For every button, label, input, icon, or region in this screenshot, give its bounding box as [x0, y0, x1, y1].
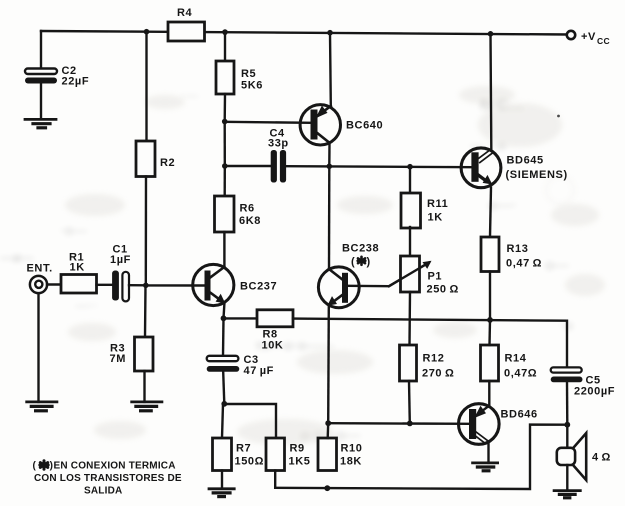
- svg-text:1K: 1K: [70, 262, 85, 274]
- wire R1 to C1: [97, 284, 113, 286]
- svg-text:1K: 1K: [428, 212, 443, 224]
- svg-text:P1: P1: [428, 271, 443, 283]
- svg-text:6K8: 6K8: [239, 215, 261, 227]
- wire BD645 emitter to R13: [490, 188, 491, 238]
- wire bottom feedback rail: [275, 425, 567, 489]
- svg-text:R7: R7: [236, 443, 251, 455]
- resistor R4: [168, 7, 205, 41]
- wire BC238 emitter down to lower node: [327, 306, 330, 424]
- wire bias rail to BD646 base: [328, 422, 469, 425]
- wire R11 to P1: [409, 227, 411, 256]
- svg-text:22µF: 22µF: [62, 76, 90, 88]
- wire top supply rail: [41, 31, 567, 35]
- wire C1 to input node: [129, 284, 146, 286]
- svg-text:33p: 33p: [268, 138, 289, 150]
- svg-text:18K: 18K: [340, 456, 362, 468]
- wire C3 bottom to node: [223, 372, 224, 404]
- capacitor C2: [25, 65, 89, 88]
- scan ghost artifacts (background): [0, 87, 574, 444]
- wire BC238 base to P1 wiper: [348, 263, 429, 287]
- transistor Q BC640: [300, 105, 383, 145]
- wire ENT to R1: [47, 283, 61, 285]
- wire R3 to ground: [143, 371, 145, 402]
- resistor R11: [401, 193, 448, 228]
- resistor R8: [257, 310, 293, 352]
- transistor Q BC237: [193, 264, 278, 305]
- svg-text:): ): [367, 256, 371, 268]
- svg-text:(: (: [33, 461, 37, 472]
- node BC237 emitter / R8 / C3: [221, 315, 227, 321]
- ground (ENT): [27, 402, 57, 411]
- ground (speaker): [554, 491, 580, 498]
- transistor Q BC238: [318, 243, 379, 308]
- wire R9 bottom to rail: [274, 471, 276, 488]
- wire R6 to BC237 collector: [223, 232, 225, 268]
- resistor R13: [481, 237, 542, 272]
- resistor R12: [400, 345, 455, 381]
- svg-text:BC238: BC238: [342, 243, 379, 255]
- svg-text:10K: 10K: [262, 340, 284, 352]
- wire R14 bottom to BD646 emitter: [488, 381, 490, 405]
- svg-text:R12: R12: [423, 353, 445, 365]
- capacitor C4: [268, 128, 289, 183]
- wire C3 top lead: [222, 318, 225, 355]
- node junction rail/R5: [222, 29, 228, 35]
- svg-text:BC237: BC237: [240, 281, 277, 293]
- svg-text:EN CONEXION TERMICA: EN CONEXION TERMICA: [54, 461, 176, 472]
- wire R5 branch from rail: [224, 32, 226, 61]
- resistor R2: [136, 141, 175, 177]
- wire BC238 collector up to node: [328, 166, 331, 268]
- node BC238 emitter / R10 / bias rail: [325, 420, 331, 426]
- potentiometer P1: [389, 256, 459, 296]
- node input / R2 / R3 / BC237 base: [143, 283, 149, 289]
- svg-text:1K5: 1K5: [289, 456, 311, 468]
- wire output rail to C5 corner: [293, 319, 567, 368]
- svg-text:+V: +V: [581, 31, 596, 43]
- svg-text:—··: —··: [75, 297, 98, 313]
- wire ENT to ground: [37, 293, 39, 402]
- wire BD646 collector to ground: [487, 443, 489, 463]
- wire speaker to ground: [566, 465, 568, 491]
- svg-text:0,47Ω: 0,47Ω: [504, 368, 537, 380]
- wire C4 right to BD645 base: [286, 166, 471, 167]
- svg-text:0,47 Ω: 0,47 Ω: [506, 258, 542, 270]
- wire BC237 emitter to node: [222, 304, 225, 319]
- svg-text:SALIDA: SALIDA: [84, 486, 122, 497]
- caption note text: [33, 461, 182, 497]
- node junction rail/BD645 collector: [488, 31, 494, 37]
- wire R12 bottom to bias rail: [408, 381, 411, 423]
- speaker LS: [557, 425, 611, 480]
- terminal ENT input jack: [27, 263, 53, 294]
- node R12 on bias rail: [407, 421, 413, 427]
- resistor R6: [215, 196, 261, 232]
- wire BC640 collector to node: [328, 144, 331, 167]
- wire node to C4 node: [223, 122, 226, 167]
- resistor R10: [318, 438, 362, 471]
- svg-text:R11: R11: [427, 198, 448, 210]
- resistor R5: [216, 61, 263, 94]
- wire R13 to output rail: [489, 272, 491, 320]
- wire node to R6: [223, 166, 226, 196]
- node R13/R14 on output rail: [487, 317, 493, 323]
- svg-text:2200µF: 2200µF: [574, 386, 615, 398]
- wire R2 branch from rail: [145, 32, 147, 141]
- transistor Q BD646: [459, 404, 538, 445]
- svg-text:1µF: 1µF: [110, 254, 131, 266]
- wire C2 branch vertical: [40, 31, 42, 69]
- wire R14 top lead: [488, 320, 491, 345]
- svg-text:ENT.: ENT.: [27, 263, 53, 275]
- wire R3 top lead: [144, 285, 147, 337]
- svg-text:R2: R2: [160, 157, 175, 169]
- ground (R3): [132, 402, 162, 411]
- node speaker / C5: [564, 422, 570, 428]
- svg-text:7M: 7M: [110, 353, 126, 365]
- capacitor C5: [551, 367, 615, 397]
- resistor R7: [213, 438, 265, 471]
- node junction rail/R2: [144, 29, 150, 35]
- svg-text:250 Ω: 250 Ω: [427, 284, 459, 296]
- wire node to R8: [224, 317, 258, 319]
- node R11 top: [407, 164, 413, 170]
- svg-text:R6: R6: [240, 203, 255, 215]
- svg-text:270 Ω: 270 Ω: [422, 368, 454, 380]
- node R10 bottom: [324, 485, 330, 491]
- wire BC640 emitter to rail: [329, 33, 332, 106]
- svg-text:BC640: BC640: [346, 120, 383, 132]
- node C3/R7/R9: [221, 401, 227, 407]
- wire C4 left lead: [225, 165, 271, 167]
- node R5/R6/BC640 base: [222, 119, 228, 125]
- svg-text:о—: о—: [545, 257, 569, 274]
- wire P1 bottom to R12: [408, 292, 411, 345]
- wire R2 to input node: [145, 177, 148, 286]
- node BC640/BC238 collectors: [327, 164, 333, 170]
- capacitor C3: [207, 354, 274, 377]
- wire BD645 collector to rail: [489, 34, 492, 149]
- svg-text:BD646: BD646: [501, 409, 538, 421]
- svg-text:4 Ω: 4 Ω: [592, 452, 611, 464]
- svg-text:(SIEMENS): (SIEMENS): [506, 169, 568, 181]
- svg-text:CON LOS TRANSISTORES DE: CON LOS TRANSISTORES DE: [34, 473, 182, 484]
- transistor Q BD645: [461, 148, 568, 188]
- svg-text:(: (: [351, 256, 355, 268]
- wire C2 to ground: [40, 83, 42, 119]
- svg-text:R14: R14: [505, 353, 527, 365]
- svg-text:R13: R13: [507, 243, 529, 255]
- terminal +Vcc: [567, 31, 610, 46]
- wire BC640 base: [225, 122, 311, 123]
- svg-text:R9: R9: [290, 443, 305, 455]
- wire R11 top lead: [409, 167, 411, 192]
- svg-text:150Ω: 150Ω: [235, 456, 265, 468]
- resistor R1: [61, 252, 97, 294]
- ground (C2): [25, 119, 56, 127]
- svg-text:R4: R4: [177, 7, 193, 19]
- svg-text:·о—: ·о—: [60, 222, 87, 238]
- node junction rail/BC640 emitter: [327, 30, 333, 36]
- capacitor C1: [110, 244, 131, 302]
- wire R5 to node: [223, 94, 226, 122]
- wire R10 top lead: [327, 423, 330, 438]
- ground (BD646): [473, 463, 498, 471]
- resistor R3: [110, 337, 154, 371]
- svg-text:5K6: 5K6: [241, 80, 263, 92]
- wire node to BC237 base: [146, 284, 205, 287]
- svg-text:R5: R5: [241, 68, 256, 80]
- svg-text:BD645: BD645: [507, 155, 544, 167]
- svg-text:CC: CC: [597, 36, 610, 46]
- node C4 left: [222, 163, 228, 169]
- ground (R7): [209, 489, 234, 497]
- svg-text:47 µF: 47 µF: [244, 365, 275, 377]
- resistor R9: [266, 438, 310, 471]
- wire C5 bottom to output node: [566, 383, 569, 425]
- svg-text:о—·: о—·: [488, 197, 517, 214]
- speck: [557, 115, 560, 118]
- resistor R14: [481, 345, 538, 381]
- wire node to R9 corner: [224, 404, 276, 438]
- wire R7 top lead: [222, 404, 223, 438]
- svg-text:R10: R10: [341, 443, 363, 455]
- wire R7 to ground: [221, 471, 223, 489]
